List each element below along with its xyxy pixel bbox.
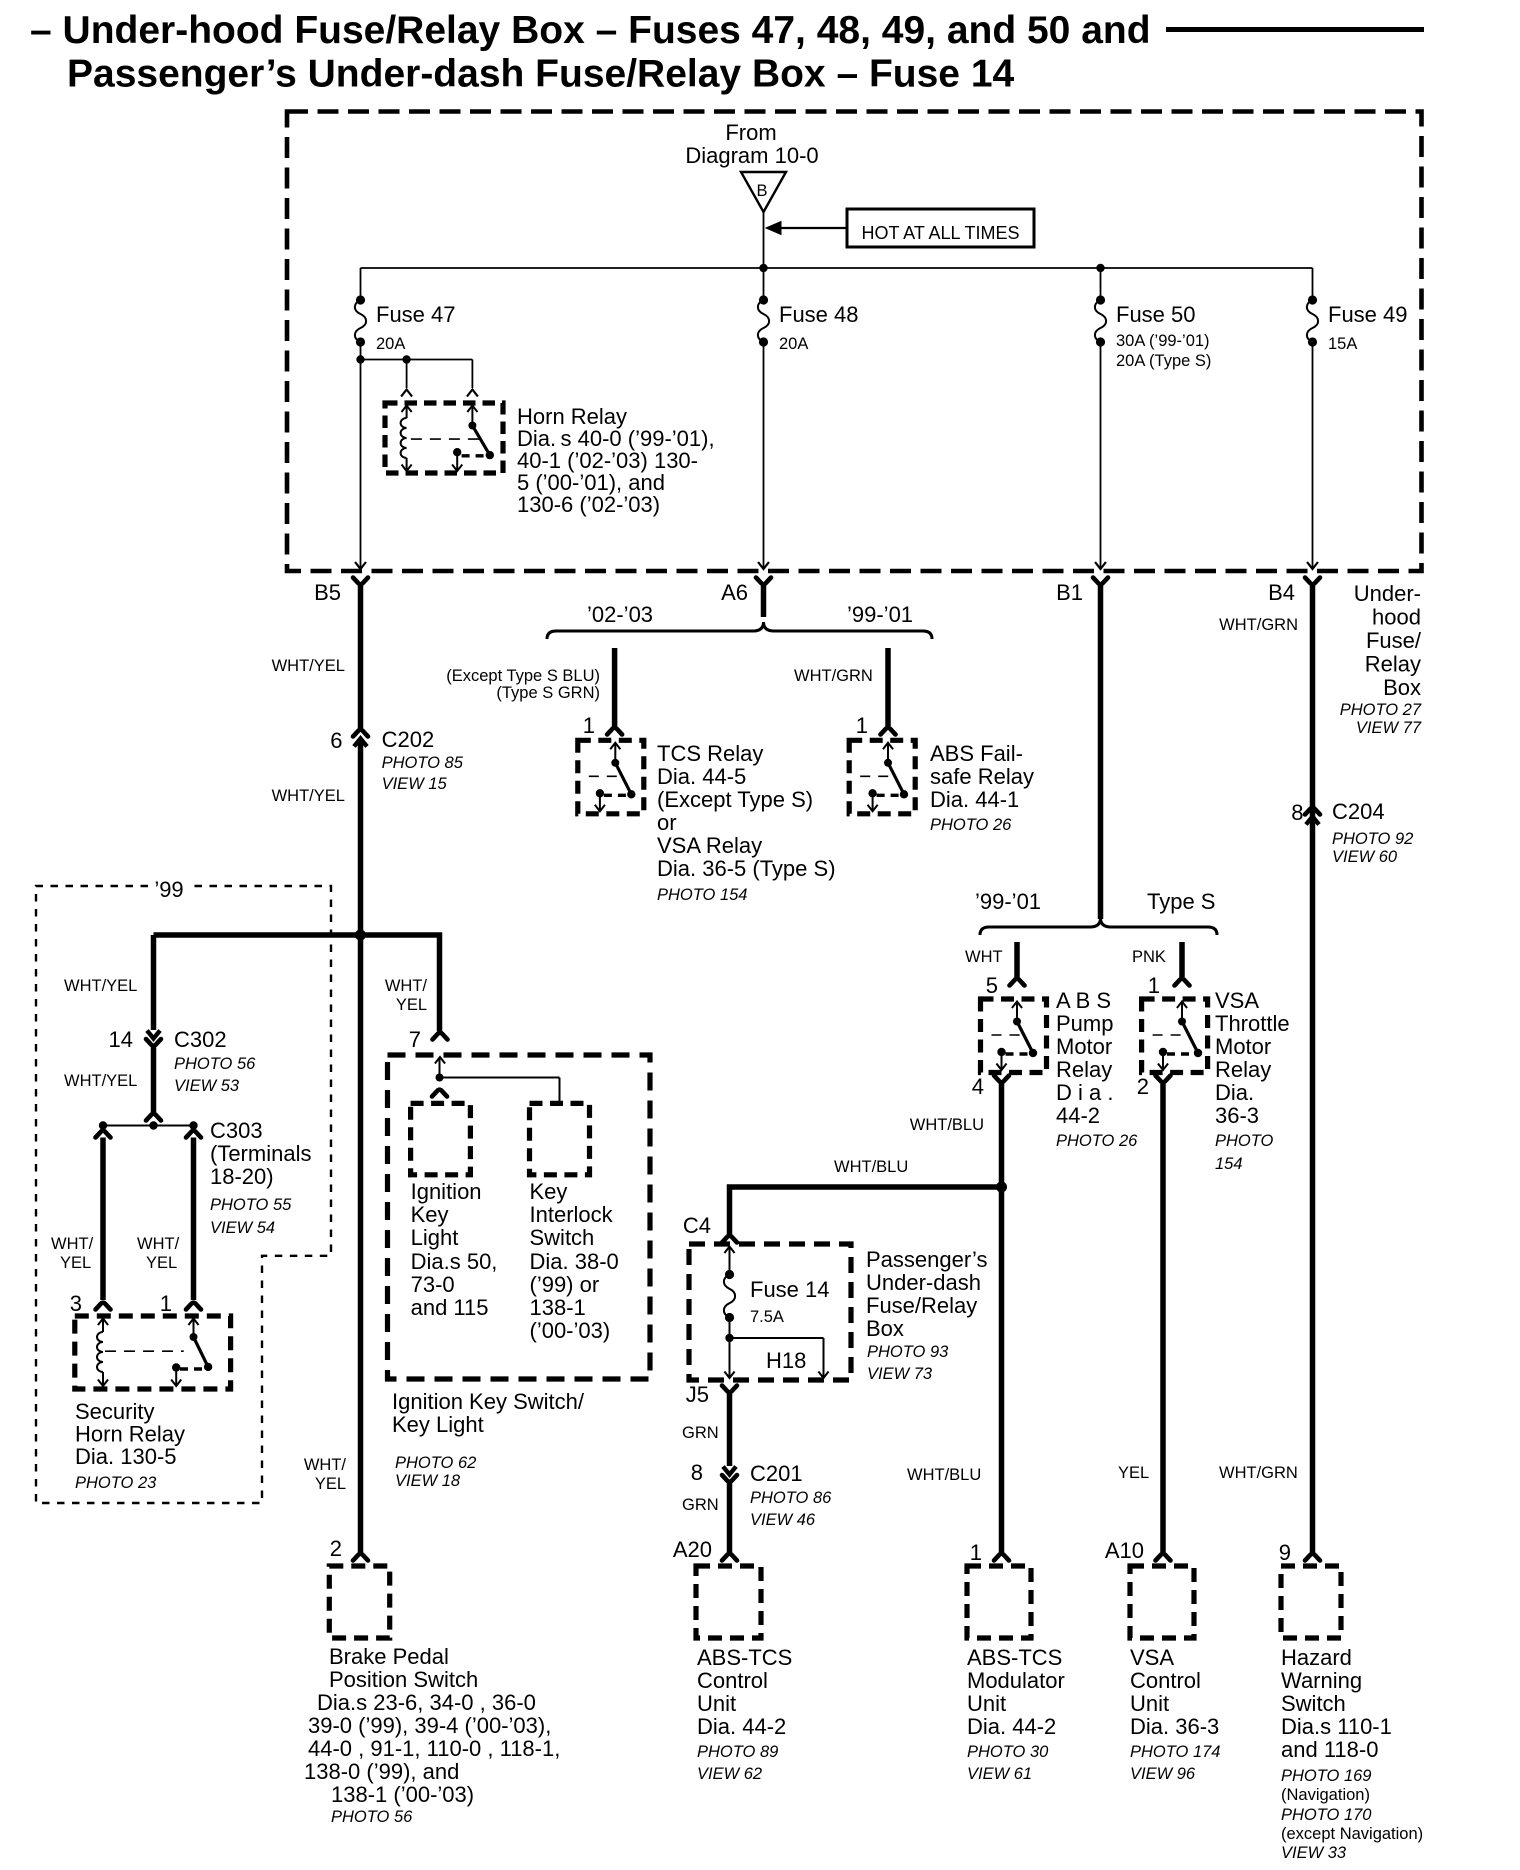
connector 2 (353, 1554, 368, 1561)
svg-text:18-20): 18-20) (210, 1164, 274, 1189)
svg-text:C201: C201 (750, 1461, 803, 1486)
svg-text:Control: Control (697, 1668, 768, 1693)
svg-text:PHOTO 93: PHOTO 93 (867, 1343, 949, 1361)
wire fuse 50 down (1100, 342, 1102, 569)
brake pedal position switch box (329, 1566, 389, 1638)
svg-text:VIEW 60: VIEW 60 (1332, 848, 1398, 866)
svg-text:VIEW 18: VIEW 18 (395, 1472, 461, 1490)
svg-text:HOT AT ALL TIMES: HOT AT ALL TIMES (861, 223, 1019, 243)
svg-text:20A: 20A (376, 335, 405, 353)
horn relay dashed link (411, 438, 479, 440)
svg-text:Modulator: Modulator (967, 1668, 1065, 1693)
connector pin 3 (96, 1303, 111, 1310)
svg-text:7: 7 (409, 1027, 421, 1052)
svg-text:WHT/: WHT/ (385, 977, 428, 995)
svg-text:Dia.s 110-1: Dia.s 110-1 (1281, 1714, 1392, 1739)
svg-text:39-0 (’99), 39-4 (’00-’03),: 39-0 (’99), 39-4 (’00-’03), (308, 1713, 551, 1738)
HOT AT ALL TIMES box (847, 209, 1034, 247)
passenger under-dash fuse/relay box (689, 1244, 851, 1380)
svg-text:VSA: VSA (1130, 1645, 1174, 1670)
svg-text:Fuse 50: Fuse 50 (1116, 302, 1196, 327)
svg-text:2: 2 (1137, 1074, 1149, 1099)
svg-text:138-0 (’99), and: 138-0 (’99), and (304, 1759, 459, 1784)
svg-text:(Type S GRN): (Type S GRN) (496, 684, 600, 702)
wire fuse 49 down (1312, 342, 1314, 569)
svg-text:Fuse/Relay: Fuse/Relay (866, 1293, 977, 1318)
svg-text:Light: Light (411, 1225, 459, 1250)
svg-text:WHT/: WHT/ (304, 1456, 347, 1474)
svg-text:Relay: Relay (1056, 1057, 1112, 1082)
under-hood fuse/relay box outline (287, 112, 1422, 572)
svg-text:Ignition Key Switch/: Ignition Key Switch/ (392, 1389, 585, 1414)
connector into C303 (146, 1114, 161, 1121)
svg-text:PHOTO 174: PHOTO 174 (1130, 1743, 1220, 1761)
svg-text:44-2: 44-2 (1056, 1103, 1100, 1128)
connector C204 (1305, 808, 1320, 815)
svg-text:Unit: Unit (967, 1691, 1006, 1716)
fuse 14 (725, 1270, 734, 1279)
svg-text:VIEW 96: VIEW 96 (1130, 1765, 1196, 1783)
svg-text:A6: A6 (721, 580, 748, 605)
svg-text:Under-: Under- (1354, 581, 1421, 606)
wire to C302 (151, 935, 157, 1030)
svg-text:C4: C4 (683, 1213, 711, 1238)
wire B5 continue down (358, 935, 364, 1552)
VSA throttle motor relay (1142, 999, 1208, 1073)
svg-text:YEL: YEL (60, 1254, 91, 1272)
wire WHT branch (1014, 942, 1020, 977)
svg-text:hood: hood (1372, 605, 1421, 630)
svg-text:36-3: 36-3 (1215, 1103, 1259, 1128)
svg-text:B4: B4 (1268, 580, 1295, 605)
wire H18 branch (730, 1337, 824, 1339)
svg-text:PHOTO 170: PHOTO 170 (1281, 1806, 1372, 1824)
svg-text:4: 4 (972, 1074, 984, 1099)
wire vsa 2 down (1160, 1084, 1166, 1552)
svg-text:Fuse/: Fuse/ (1366, 628, 1422, 653)
svg-text:VSA: VSA (1215, 988, 1259, 1013)
security horn relay box (75, 1316, 231, 1389)
svg-text:VIEW 54: VIEW 54 (210, 1219, 275, 1237)
svg-text:ABS Fail-: ABS Fail- (930, 741, 1023, 766)
svg-text:Dia. 44-1: Dia. 44-1 (930, 787, 1019, 812)
svg-text:138-1 (’00-’03): 138-1 (’00-’03) (331, 1782, 474, 1807)
svg-text:Warning: Warning (1281, 1668, 1362, 1693)
svg-text:B: B (756, 182, 767, 200)
box 99 outline (36, 886, 331, 1503)
svg-text:YEL: YEL (396, 996, 427, 1014)
wire WHT/BLU horizontal (730, 1187, 1002, 1236)
svg-text:PHOTO 55: PHOTO 55 (210, 1196, 292, 1214)
wire PNK branch (1179, 942, 1185, 977)
svg-text:Switch: Switch (1281, 1691, 1346, 1716)
svg-text:Fuse 47: Fuse 47 (376, 302, 456, 327)
wire TCS branch (612, 648, 618, 726)
svg-text:VIEW 61: VIEW 61 (967, 1765, 1032, 1783)
svg-text:VIEW 15: VIEW 15 (382, 775, 448, 793)
svg-text:WHT/YEL: WHT/YEL (64, 1072, 137, 1090)
svg-text:44-0 , 91-1, 110-0 , 118-1,: 44-0 , 91-1, 110-0 , 118-1, (308, 1736, 560, 1761)
svg-text:Dia. 36-3: Dia. 36-3 (1130, 1714, 1219, 1739)
svg-text:’02-’03: ’02-’03 (587, 602, 653, 627)
security relay coil (98, 1319, 108, 1326)
svg-text:Unit: Unit (1130, 1691, 1169, 1716)
svg-text:Diagram 10-0: Diagram 10-0 (685, 143, 818, 168)
svg-text:or: or (657, 810, 677, 835)
svg-text:Security: Security (75, 1399, 154, 1424)
svg-text:Hazard: Hazard (1281, 1645, 1352, 1670)
svg-text:WHT/: WHT/ (137, 1235, 180, 1253)
node fuse47/horn (356, 355, 364, 363)
svg-text:PHOTO 26: PHOTO 26 (1056, 1132, 1138, 1150)
svg-text:Relay: Relay (1365, 652, 1421, 677)
fuse 50 (1096, 295, 1105, 304)
svg-text:GRN: GRN (682, 1496, 719, 1514)
svg-text:1: 1 (856, 713, 868, 738)
svg-text:20A: 20A (779, 335, 808, 353)
svg-text:’99-’01: ’99-’01 (975, 889, 1041, 914)
svg-text:C302: C302 (174, 1027, 227, 1052)
svg-text:A B S: A B S (1056, 988, 1111, 1013)
svg-text:WHT/BLU: WHT/BLU (907, 1466, 981, 1484)
svg-text:Switch: Switch (530, 1225, 595, 1250)
svg-text:and 115: and 115 (411, 1295, 489, 1320)
connector C302 (147, 1031, 160, 1039)
svg-text:C204: C204 (1332, 799, 1385, 824)
svg-text:2: 2 (330, 1536, 342, 1561)
VSA control unit box (1130, 1566, 1194, 1638)
svg-text:Dia. 38-0: Dia. 38-0 (530, 1249, 619, 1274)
svg-text:Dia. 44-5: Dia. 44-5 (657, 764, 746, 789)
svg-text:Dia. 44-2: Dia. 44-2 (967, 1714, 1056, 1739)
svg-text:7.5A: 7.5A (750, 1308, 784, 1326)
svg-text:15A: 15A (1328, 335, 1357, 353)
wire triangle to bus (763, 212, 765, 268)
wire inside ignition (435, 1057, 445, 1064)
svg-text:VIEW 62: VIEW 62 (697, 1765, 762, 1783)
wire fuse 50 drop (1100, 268, 1102, 300)
svg-text:YEL: YEL (1118, 1464, 1149, 1482)
svg-text:6: 6 (330, 728, 342, 753)
svg-text:154: 154 (1215, 1155, 1243, 1173)
exit arrows at box edge (355, 562, 366, 569)
wire to horn switch (471, 360, 473, 389)
svg-text:(Terminals: (Terminals (210, 1141, 311, 1166)
svg-text:Motor: Motor (1056, 1034, 1112, 1059)
svg-text:Key: Key (530, 1179, 568, 1204)
wire ABS fail-safe branch (885, 648, 891, 726)
svg-text:Motor: Motor (1215, 1034, 1271, 1059)
title rule (1166, 27, 1424, 32)
wire branch left into 99 box (154, 932, 361, 938)
wire fuse 49 drop (1312, 268, 1314, 300)
ABS-TCS modulator unit box (967, 1566, 1031, 1638)
svg-text:A20: A20 (673, 1537, 712, 1562)
wire B5 down (358, 586, 364, 728)
horn relay switch (467, 406, 477, 413)
svg-text:Box: Box (1383, 675, 1421, 700)
svg-text:Ignition: Ignition (411, 1179, 482, 1204)
wire pump 4 down (999, 1084, 1005, 1552)
wire C303-1 (191, 1138, 197, 1301)
brace 99-01 / Type S (980, 918, 1217, 935)
svg-text:Under-dash: Under-dash (866, 1270, 981, 1295)
wire into fuse 14 (724, 1247, 734, 1254)
svg-text:Dia. 44-2: Dia. 44-2 (697, 1714, 786, 1739)
svg-text:PHOTO: PHOTO (1215, 1132, 1274, 1150)
connector 7 (433, 1033, 448, 1040)
node B5 junction (355, 930, 366, 941)
svg-text:A10: A10 (1105, 1538, 1144, 1563)
svg-text:130-6 (’02-’03): 130-6 (’02-’03) (517, 492, 660, 517)
svg-text:VIEW 77: VIEW 77 (1356, 719, 1422, 737)
svg-text:C303: C303 (210, 1118, 263, 1143)
fuse 48 (759, 295, 768, 304)
brace 02-03 / 99-01 (547, 622, 932, 639)
connector C201 (723, 1467, 736, 1475)
svg-text:8: 8 (1291, 800, 1303, 825)
svg-text:Type S: Type S (1147, 889, 1215, 914)
svg-text:Passenger’s: Passenger’s (866, 1247, 987, 1272)
svg-text:PHOTO 56: PHOTO 56 (331, 1808, 413, 1826)
svg-text:VIEW 53: VIEW 53 (174, 1077, 240, 1095)
svg-text:PHOTO 154: PHOTO 154 (657, 886, 747, 904)
ABS fail-safe relay (849, 740, 915, 814)
wire branch right to ignition (361, 935, 440, 1031)
svg-text:J5: J5 (686, 1382, 709, 1407)
wire horn branch (361, 359, 473, 361)
svg-text:PHOTO 86: PHOTO 86 (750, 1489, 832, 1507)
svg-text:14: 14 (109, 1027, 133, 1052)
svg-text:20A (Type S): 20A (Type S) (1116, 352, 1211, 370)
svg-text:B5: B5 (314, 580, 341, 605)
svg-text:WHT/BLU: WHT/BLU (834, 1158, 908, 1176)
wire to horn coil (406, 360, 408, 389)
security relay switch (188, 1319, 198, 1326)
svg-text:YEL: YEL (315, 1475, 346, 1493)
connector C303 left (96, 1131, 111, 1138)
fuse 49 (1308, 295, 1317, 304)
svg-text:Relay: Relay (1215, 1057, 1271, 1082)
svg-text:Pump: Pump (1056, 1011, 1113, 1036)
svg-text:WHT/YEL: WHT/YEL (272, 787, 345, 805)
svg-text:(’99) or: (’99) or (530, 1272, 600, 1297)
node bus/fuse50 (1096, 264, 1104, 272)
svg-text:PHOTO 89: PHOTO 89 (697, 1743, 778, 1761)
ignition key light box (411, 1103, 471, 1174)
svg-text:WHT/BLU: WHT/BLU (910, 1116, 984, 1134)
svg-text:WHT/: WHT/ (51, 1235, 94, 1253)
svg-text:Key Light: Key Light (392, 1412, 484, 1437)
svg-text:WHT/YEL: WHT/YEL (64, 977, 137, 995)
svg-text:3: 3 (70, 1291, 82, 1316)
svg-text:’99-’01: ’99-’01 (847, 602, 913, 627)
svg-text:ABS-TCS: ABS-TCS (967, 1645, 1062, 1670)
svg-text:Throttle: Throttle (1215, 1011, 1290, 1036)
svg-text:5: 5 (986, 973, 998, 998)
svg-text:1: 1 (970, 1540, 982, 1565)
svg-text:VIEW 46: VIEW 46 (750, 1511, 816, 1529)
svg-text:1: 1 (1148, 973, 1160, 998)
svg-text:Control: Control (1130, 1668, 1201, 1693)
svg-text:(Navigation): (Navigation) (1281, 1786, 1370, 1804)
svg-text:PHOTO 169: PHOTO 169 (1281, 1767, 1371, 1785)
wire bus to fuse 47 (360, 268, 362, 300)
svg-text:Fuse 48: Fuse 48 (779, 302, 859, 327)
svg-text:Key: Key (411, 1202, 449, 1227)
ABS pump motor relay (981, 999, 1047, 1073)
svg-text:’99: ’99 (154, 877, 183, 902)
svg-text:1: 1 (583, 713, 595, 738)
svg-text:Dia.s 23-6, 34-0 , 36-0: Dia.s 23-6, 34-0 , 36-0 (317, 1690, 536, 1715)
svg-text:Interlock: Interlock (530, 1202, 614, 1227)
svg-text:From: From (725, 120, 776, 145)
svg-text:Position Switch: Position Switch (329, 1667, 478, 1692)
svg-text:PNK: PNK (1132, 948, 1166, 966)
svg-text:1: 1 (160, 1291, 172, 1316)
connector into key light (432, 1090, 447, 1097)
horn relay K box (385, 403, 503, 473)
node fuse14 out (725, 1334, 733, 1342)
key interlock switch box (530, 1103, 590, 1174)
svg-text:Dia. 130-5: Dia. 130-5 (75, 1444, 177, 1469)
svg-text:safe Relay: safe Relay (930, 764, 1034, 789)
svg-text:WHT/YEL: WHT/YEL (272, 657, 345, 675)
connector C303 right (186, 1131, 201, 1138)
svg-text:Unit: Unit (697, 1691, 736, 1716)
hazard warning switch box (1281, 1566, 1341, 1638)
svg-text:(Except Type S): (Except Type S) (657, 787, 813, 812)
svg-text:VIEW 73: VIEW 73 (867, 1365, 933, 1383)
svg-text:(except Navigation): (except Navigation) (1281, 1825, 1423, 1843)
svg-text:PHOTO 27: PHOTO 27 (1340, 701, 1422, 719)
svg-text:9: 9 (1279, 1540, 1291, 1565)
svg-text:(’00-’03): (’00-’03) (530, 1318, 611, 1343)
C303 junction line (103, 1125, 194, 1127)
svg-text:(Except Type S BLU): (Except Type S BLU) (446, 667, 600, 685)
wire fuse 48 drop (763, 268, 765, 300)
node pump4/wht-blu (996, 1182, 1007, 1193)
node horn branch (402, 355, 410, 363)
svg-text:Fuse 14: Fuse 14 (750, 1277, 830, 1302)
svg-text:PHOTO 23: PHOTO 23 (75, 1474, 157, 1492)
svg-text:WHT/GRN: WHT/GRN (1219, 1464, 1298, 1482)
svg-text:Fuse 49: Fuse 49 (1328, 302, 1408, 327)
svg-text:30A (’99-’01): 30A (’99-’01) (1116, 332, 1210, 350)
bus wire (361, 267, 1313, 269)
connector triangle B (741, 172, 786, 212)
ignition key switch box (388, 1055, 651, 1379)
svg-text:Dia.s 50,: Dia.s 50, (411, 1249, 498, 1274)
svg-text:WHT: WHT (965, 948, 1003, 966)
svg-text:Passenger’s Under-dash Fuse/Re: Passenger’s Under-dash Fuse/Relay Box – … (67, 53, 1015, 96)
svg-text:GRN: GRN (682, 1424, 719, 1442)
svg-text:Box: Box (866, 1316, 904, 1341)
svg-text:8: 8 (691, 1460, 703, 1485)
connector pin 1 (186, 1303, 201, 1310)
svg-text:138-1: 138-1 (530, 1295, 586, 1320)
arrow to wire (777, 227, 847, 229)
wire fuse 47 down (360, 342, 362, 569)
TCS relay (578, 740, 644, 814)
horn relay coil (402, 406, 412, 413)
svg-text:Brake Pedal: Brake Pedal (329, 1644, 449, 1669)
node bus/fuse48 (759, 264, 767, 272)
svg-text:C202: C202 (382, 727, 435, 752)
svg-text:and 118-0: and 118-0 (1281, 1737, 1378, 1762)
svg-text:PHOTO 56: PHOTO 56 (174, 1055, 256, 1073)
svg-text:PHOTO 62: PHOTO 62 (395, 1454, 476, 1472)
svg-text:PHOTO 92: PHOTO 92 (1332, 830, 1413, 848)
svg-text:Dia.: Dia. (1215, 1080, 1254, 1105)
svg-text:YEL: YEL (146, 1254, 177, 1272)
svg-text:WHT/GRN: WHT/GRN (794, 667, 873, 685)
svg-text:VSA Relay: VSA Relay (657, 833, 762, 858)
svg-text:– Under-hood Fuse/Relay Box –: – Under-hood Fuse/Relay Box – Fuses 47, … (30, 9, 1151, 52)
svg-text:ABS-TCS: ABS-TCS (697, 1645, 792, 1670)
svg-text:Horn Relay: Horn Relay (75, 1422, 185, 1447)
svg-text:D i a .: D i a . (1056, 1080, 1113, 1105)
ABS-TCS control unit box (696, 1566, 761, 1638)
svg-text:B1: B1 (1056, 580, 1083, 605)
svg-text:VIEW 33: VIEW 33 (1281, 1844, 1347, 1862)
svg-text:PHOTO 30: PHOTO 30 (967, 1743, 1049, 1761)
svg-text:H18: H18 (766, 1348, 806, 1373)
wire J5 exit (729, 1338, 731, 1377)
wire C303-3 (100, 1138, 106, 1301)
svg-text:Dia. 36-5 (Type S): Dia. 36-5 (Type S) (657, 856, 836, 881)
svg-text:PHOTO 85: PHOTO 85 (382, 754, 464, 772)
svg-text:73-0: 73-0 (411, 1272, 455, 1297)
fuse 47 (356, 295, 365, 304)
connector C202 (353, 730, 368, 737)
wire fuse 48 down (763, 342, 765, 569)
svg-text:TCS Relay: TCS Relay (657, 741, 763, 766)
svg-text:WHT/GRN: WHT/GRN (1219, 616, 1298, 634)
svg-text:PHOTO 26: PHOTO 26 (930, 816, 1012, 834)
